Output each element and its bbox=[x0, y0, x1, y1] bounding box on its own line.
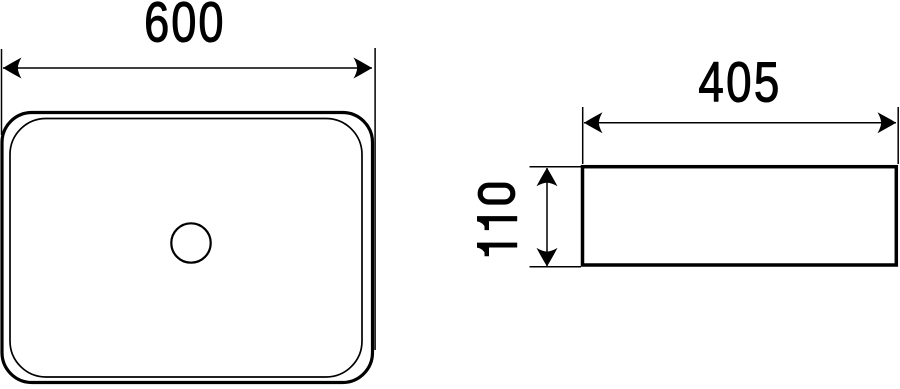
svg-text:405: 405 bbox=[698, 50, 781, 114]
dimension text 110 (rotated, drawn as shapes) bbox=[477, 185, 517, 256]
extension line right of 600 dimension bbox=[374, 48, 376, 350]
arrowhead bottom of 110 dimension bbox=[537, 248, 558, 267]
second digit 1 of 110 (bottom bar) bbox=[477, 243, 517, 257]
drain circle bbox=[171, 223, 210, 262]
extension line left of 405 dimension bbox=[582, 107, 584, 164]
extension line top of 110 dimension bbox=[530, 166, 582, 168]
digit 0 of 110 bbox=[480, 185, 513, 202]
top view outer rim (rounded rectangle) bbox=[2, 113, 373, 383]
top view inner rim (rounded rectangle) bbox=[10, 119, 362, 378]
svg-text:600: 600 bbox=[144, 0, 225, 53]
side view body rectangle bbox=[583, 167, 897, 265]
first digit 1 of 110 (middle bar) bbox=[477, 216, 517, 230]
arrowhead left of 405 dimension bbox=[584, 112, 603, 133]
arrowhead left of 600 dimension bbox=[3, 58, 22, 79]
arrowhead right of 600 dimension bbox=[354, 58, 373, 79]
extension line left of 600 dimension bbox=[1, 49, 3, 135]
extension line bottom of 110 dimension bbox=[530, 266, 582, 268]
arrowhead right of 405 dimension bbox=[878, 112, 897, 133]
dimension line 600 bbox=[3, 67, 372, 69]
extension line right of 405 dimension bbox=[897, 107, 899, 164]
dimension line 405 bbox=[584, 122, 896, 124]
arrowhead top of 110 dimension bbox=[537, 168, 558, 187]
dimension line 110 bbox=[546, 168, 548, 266]
